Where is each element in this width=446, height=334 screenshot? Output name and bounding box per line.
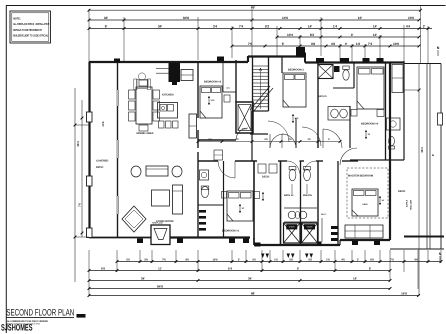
window marker top wall 5 bbox=[363, 58, 370, 63]
svg-text:7'4: 7'4 bbox=[368, 42, 373, 46]
bath4 vanity bbox=[387, 118, 401, 130]
ext line x232 bbox=[231, 26, 233, 58]
interior dim line in hall bbox=[198, 141, 340, 143]
tile shower 1 bbox=[284, 223, 301, 243]
wall x198 lower bath bbox=[197, 152, 199, 237]
bedroom1 nightstand bbox=[222, 192, 227, 199]
ext line x404 bbox=[403, 25, 405, 62]
ext line x352 bbox=[351, 44, 353, 62]
svg-text:4'6: 4'6 bbox=[341, 259, 345, 262]
svg-text:8': 8' bbox=[369, 267, 372, 271]
ext line x252 bbox=[251, 9, 253, 56]
bottom dim row B bbox=[89, 270, 390, 272]
svg-text:N: N bbox=[437, 46, 440, 50]
svg-text:36'4: 36'4 bbox=[420, 147, 424, 153]
svg-text:11': 11' bbox=[158, 267, 162, 271]
living round chair left bbox=[131, 166, 141, 177]
top dimension line A (86') bbox=[89, 9, 421, 11]
svg-text:PATIO: PATIO bbox=[96, 166, 103, 169]
bot ext x390 bbox=[389, 250, 391, 281]
bath vanity counter bbox=[284, 207, 317, 209]
svg-text:86': 86' bbox=[251, 291, 255, 295]
svg-text:7'6: 7'6 bbox=[162, 259, 166, 262]
svg-text:34': 34' bbox=[141, 276, 145, 280]
patio left wall bbox=[88, 62, 90, 237]
bath5 right wall x354 bbox=[353, 63, 355, 89]
bath4 outer wall x404 bbox=[403, 61, 405, 160]
svg-text:7'4: 7'4 bbox=[239, 24, 244, 28]
bath5 wall x350 bbox=[349, 106, 351, 148]
kitchen stools bbox=[159, 121, 165, 128]
bath sink oval bbox=[295, 212, 300, 219]
svg-text:4'6: 4'6 bbox=[414, 259, 418, 262]
svg-text:3'6: 3'6 bbox=[126, 259, 130, 262]
left dim short h-line bbox=[75, 124, 89, 126]
elevator shaft outer bbox=[236, 102, 253, 133]
bath5 nook bottom wall bbox=[333, 87, 354, 89]
svg-text:LIN.: LIN. bbox=[227, 87, 231, 90]
right dim h-tick bbox=[404, 89, 419, 91]
window marker top wall 6 bbox=[377, 58, 384, 63]
bottom wall right section bbox=[339, 240, 341, 245]
master dim arrow bbox=[379, 196, 381, 205]
ext line x277 bbox=[276, 26, 278, 56]
svg-text:BEDROOM #1: BEDROOM #1 bbox=[222, 230, 240, 233]
svg-text:DECK: DECK bbox=[398, 190, 405, 193]
svg-text:84'8: 84'8 bbox=[157, 284, 163, 288]
bottom wall middle section bbox=[253, 238, 255, 246]
hall wall y134 bbox=[250, 133, 268, 135]
bedroom2 bed bbox=[200, 86, 222, 118]
bedroom2 bottom wall bbox=[198, 139, 236, 141]
bedroom3 wall x282 bbox=[281, 57, 283, 74]
bot ext x89 bbox=[88, 250, 90, 296]
bot ext x198 bbox=[197, 250, 199, 272]
bot ext x441 bbox=[440, 250, 442, 263]
svg-text:8'2: 8'2 bbox=[310, 33, 315, 37]
svg-text:11'6: 11'6 bbox=[211, 99, 216, 102]
powder bath wall y205 bbox=[198, 204, 224, 206]
powder bath toilet bbox=[201, 186, 209, 197]
window marker bottom wall 5 bbox=[255, 243, 261, 247]
bedroom1 door arc bbox=[218, 161, 235, 178]
dim arrow pair 2 bbox=[287, 254, 291, 259]
master door arc bbox=[340, 148, 357, 165]
svg-text:HOT TUB: HOT TUB bbox=[409, 200, 412, 210]
svg-text:MASTER BEDROOM: MASTER BEDROOM bbox=[348, 175, 373, 178]
bath sink bowl 2 bbox=[299, 211, 307, 219]
note box outer frame bbox=[10, 11, 51, 43]
bedroom4 dim arrow bbox=[365, 130, 367, 139]
bottom dim row C bbox=[89, 280, 390, 282]
kitchen island bbox=[158, 103, 178, 119]
closet wall bedroom2 bbox=[222, 62, 224, 92]
svg-text:KING: KING bbox=[363, 203, 368, 206]
svg-text:6'8: 6'8 bbox=[101, 267, 105, 271]
svg-text:W.I.C.: W.I.C. bbox=[321, 213, 327, 216]
svg-text:1'6: 1'6 bbox=[356, 42, 361, 46]
laundry dash 3 bbox=[199, 222, 206, 225]
bot ext x404 bbox=[403, 250, 405, 272]
bot ext x335 bbox=[334, 250, 336, 272]
corridor south wall y161 segments bbox=[198, 160, 218, 162]
svg-text:34': 34' bbox=[248, 276, 252, 280]
svg-text:7'6: 7'6 bbox=[78, 203, 82, 207]
bath2 toilet bbox=[289, 169, 296, 181]
title underline bbox=[6, 317, 74, 319]
left vert dim line 1 bbox=[74, 88, 76, 282]
elevator shaft inner bbox=[238, 105, 251, 131]
svg-text:4'6: 4'6 bbox=[307, 138, 311, 141]
ext line x380 bbox=[379, 35, 381, 62]
svg-text:BEDROOM 3: BEDROOM 3 bbox=[288, 69, 304, 72]
top dimension line E bbox=[232, 45, 419, 47]
svg-text:4'6: 4'6 bbox=[185, 259, 189, 262]
svg-text:DECK: DECK bbox=[262, 176, 269, 179]
window marker top wall 3 bbox=[296, 53, 306, 58]
svg-text:7'6: 7'6 bbox=[390, 259, 394, 262]
bedroom3 wall x318 bbox=[317, 63, 319, 149]
svg-text:M.BATH: M.BATH bbox=[303, 194, 312, 197]
svg-text:86': 86' bbox=[251, 6, 256, 10]
svg-text:6'8: 6'8 bbox=[264, 138, 268, 141]
deck inner rail double line bbox=[426, 64, 428, 249]
ext line x365 bbox=[364, 44, 366, 62]
bedroom1 bed bbox=[227, 191, 253, 221]
bath5 vanity counter bbox=[328, 107, 350, 121]
bedroom2 dim arrow bbox=[208, 96, 210, 105]
title scale blob bbox=[77, 314, 86, 318]
window marker blob top bbox=[296, 47, 305, 53]
window marker bottom wall 3 bbox=[229, 239, 235, 244]
ext line x198 bbox=[197, 17, 199, 60]
dim arrow pair 1 bbox=[261, 254, 265, 259]
svg-text:14': 14' bbox=[353, 276, 357, 280]
left vert dim line 2 bbox=[81, 100, 83, 237]
svg-text:3': 3' bbox=[357, 259, 359, 262]
powder bath sink bbox=[200, 170, 209, 180]
closet dash 3 bbox=[331, 238, 338, 241]
right wall of master bedroom bbox=[389, 63, 391, 241]
svg-text:DETAILS TO BE PROVIDED BY: DETAILS TO BE PROVIDED BY bbox=[13, 28, 42, 32]
svg-text:10'6: 10'6 bbox=[212, 259, 218, 262]
bath4 toilet bbox=[389, 136, 395, 145]
svg-text:34': 34' bbox=[104, 16, 109, 20]
bot ext x246 bbox=[245, 250, 247, 263]
bot ext x321 bbox=[320, 250, 322, 263]
svg-text:12': 12' bbox=[242, 207, 245, 210]
bottom dim row D bbox=[89, 288, 390, 290]
bot ext x283 bbox=[282, 250, 284, 263]
ext line x300 bbox=[299, 35, 301, 52]
dining chairs bbox=[129, 90, 136, 99]
deck rail marker bbox=[438, 113, 443, 125]
svg-text:4'4: 4'4 bbox=[406, 24, 411, 28]
master tray ceiling dashed bbox=[347, 168, 388, 218]
svg-text:2': 2' bbox=[423, 24, 426, 28]
chimney base mark bbox=[172, 82, 177, 85]
svg-text:14': 14' bbox=[373, 33, 378, 37]
hall door arc 1 bbox=[270, 134, 284, 148]
deck dim arrow bbox=[262, 192, 264, 201]
closet dash 2 bbox=[331, 232, 338, 235]
note box inner frame bbox=[12, 13, 49, 42]
tile shower 2 bbox=[302, 223, 318, 243]
svg-text:BATH 5: BATH 5 bbox=[318, 95, 327, 98]
patio column marker 3 bbox=[87, 228, 93, 238]
svg-text:3'6: 3'6 bbox=[252, 259, 256, 262]
bedroom3 door arc bbox=[282, 134, 296, 148]
mbath door arc bbox=[304, 161, 316, 173]
top dimension line D bbox=[277, 36, 419, 38]
bath4 wall y160 bbox=[350, 159, 385, 161]
window marker bottom wall 8 bbox=[374, 241, 380, 245]
hall door arc big bbox=[268, 121, 289, 142]
svg-text:24'8: 24'8 bbox=[102, 121, 105, 127]
house left wall with windows bbox=[117, 62, 119, 90]
window marker bottom wall 4 bbox=[243, 239, 249, 244]
svg-text:ALL FIREPLACE SPECS + INSTALLA: ALL FIREPLACE SPECS + INSTALLATION bbox=[13, 22, 49, 26]
deck planters bbox=[258, 164, 266, 173]
svg-text:13': 13' bbox=[368, 133, 371, 136]
living rug diamond bbox=[122, 206, 146, 232]
wall x198 dining-bedroom2 bbox=[197, 62, 199, 118]
chase box with X bbox=[318, 65, 333, 79]
bath5 sink 1 bbox=[331, 109, 339, 118]
bot ext x140 bbox=[139, 250, 141, 263]
bedroom4 wall x385 bbox=[385, 63, 387, 161]
dimension arrows in bath bbox=[291, 184, 293, 194]
kitchen fridge bbox=[181, 70, 193, 81]
svg-text:5'4: 5'4 bbox=[228, 267, 232, 271]
bot ext x365 bbox=[364, 250, 366, 263]
svg-text:DINING AREA: DINING AREA bbox=[137, 132, 154, 135]
living chaise bbox=[173, 185, 183, 214]
bedroom4 nightstand left bbox=[351, 110, 357, 117]
svg-text:3'8: 3'8 bbox=[144, 259, 148, 262]
dark marker right of chase bbox=[334, 66, 340, 72]
bottom dim row A bbox=[117, 261, 441, 263]
svg-text:14': 14' bbox=[308, 24, 313, 28]
fireplace firebox bbox=[151, 225, 170, 245]
svg-text:1'6: 1'6 bbox=[274, 259, 278, 262]
living round chair right bbox=[172, 166, 182, 177]
svg-text:8': 8' bbox=[431, 154, 435, 157]
laundry dash 2 bbox=[199, 216, 206, 219]
svg-text:BUILDER/CLIENT TO CODE OFFICIA: BUILDER/CLIENT TO CODE OFFICIAL bbox=[13, 33, 48, 37]
dim arrow pair 3 bbox=[305, 254, 309, 259]
bottom wall left section bbox=[89, 237, 151, 239]
deck right rail bbox=[440, 64, 442, 250]
deck top edge bbox=[404, 63, 441, 65]
svg-text:FIREPLACE: FIREPLACE bbox=[152, 222, 163, 225]
master bed bbox=[352, 189, 378, 216]
deck bottom edge bbox=[390, 248, 444, 250]
bath sink bowl 1 bbox=[288, 211, 296, 219]
bedroom1 right nightstand bbox=[254, 192, 260, 199]
patio column marker 1 bbox=[87, 112, 93, 122]
svg-text:BEDROOM #4: BEDROOM #4 bbox=[361, 123, 379, 126]
svg-text:5': 5' bbox=[328, 138, 330, 141]
bot ext x428 bbox=[427, 250, 429, 263]
staircase with treads bbox=[252, 57, 254, 112]
bot ext x380 bbox=[379, 250, 381, 263]
closet dash 1 bbox=[331, 226, 338, 229]
svg-text:9'2: 9'2 bbox=[265, 24, 270, 28]
svg-text:14'6: 14'6 bbox=[282, 16, 288, 20]
stair bottom wall bbox=[253, 110, 269, 112]
svg-text:8': 8' bbox=[105, 24, 108, 28]
ext line x428 bbox=[427, 26, 429, 64]
wall x236 bedroom2 right bbox=[235, 60, 237, 102]
window marker top wall 4 bbox=[316, 58, 324, 63]
top wall right section bbox=[305, 61, 404, 63]
top wall step at x305 bbox=[304, 57, 306, 63]
svg-text:NOTE:: NOTE: bbox=[13, 16, 21, 20]
ext line x89 bbox=[88, 9, 90, 62]
top dimension line B bbox=[89, 19, 419, 21]
bath2 door arc bbox=[287, 161, 300, 174]
svg-text:10'6: 10'6 bbox=[393, 42, 399, 46]
svg-text:36'4: 36'4 bbox=[76, 141, 80, 147]
svg-text:3'8: 3'8 bbox=[308, 259, 312, 262]
svg-text:6'8: 6'8 bbox=[370, 259, 374, 262]
window marker bottom wall 6 bbox=[317, 242, 322, 246]
bot ext x270 bbox=[269, 250, 271, 263]
svg-text:KITCHEN: KITCHEN bbox=[162, 94, 174, 97]
bedroom4 wardrobe bbox=[392, 65, 403, 93]
svg-text:BATH #2: BATH #2 bbox=[284, 194, 294, 197]
deck bottom wall right bbox=[404, 236, 444, 238]
wall x223 bath right bbox=[223, 161, 225, 237]
bot ext x352 bbox=[351, 250, 353, 263]
kitchen pantry cabinet bbox=[189, 114, 197, 138]
svg-text:SECOND FLOOR PLAN: SECOND FLOOR PLAN bbox=[6, 307, 74, 317]
bedroom3 bed bbox=[283, 73, 306, 107]
fireplace chimney dark block bbox=[169, 63, 181, 82]
window marker top wall 4b bbox=[340, 58, 349, 63]
bot ext x262 bbox=[261, 250, 263, 272]
kitchen counter lines bbox=[156, 68, 169, 70]
svg-text:5'0x8'0: 5'0x8'0 bbox=[405, 200, 408, 208]
svg-text:1'6: 1'6 bbox=[326, 259, 330, 262]
window marker top wall 1 bbox=[114, 59, 120, 64]
wall x254 vertical bbox=[253, 161, 255, 245]
svg-text:14': 14' bbox=[373, 24, 378, 28]
page left border line bbox=[5, 6, 7, 334]
bath wall x318 bbox=[317, 161, 319, 245]
window marker top wall 2 bbox=[217, 57, 224, 62]
living sofa bbox=[146, 166, 168, 176]
bot ext x152 bbox=[151, 250, 153, 263]
bedroom2 door arc bbox=[236, 128, 248, 140]
ext line x321 bbox=[320, 17, 322, 56]
master closet rod line bbox=[321, 218, 323, 242]
bedroom2 nightstand bbox=[224, 95, 230, 102]
bot ext x117 bbox=[116, 250, 118, 272]
top dimension line C bbox=[89, 28, 432, 30]
top wall left section bbox=[89, 61, 248, 63]
svg-text:14': 14' bbox=[382, 199, 385, 202]
bot ext x232 bbox=[231, 250, 233, 263]
master bench dresser bbox=[345, 225, 383, 238]
svg-text:3'8: 3'8 bbox=[311, 42, 316, 46]
window marker bottom wall 1 bbox=[137, 239, 143, 244]
right vert dim ext bbox=[418, 64, 420, 296]
svg-text:5': 5' bbox=[282, 42, 285, 46]
armchair by fireplace bbox=[138, 73, 145, 80]
bottom dim row E bbox=[89, 295, 419, 297]
svg-text:N: N bbox=[439, 252, 442, 256]
bot ext x418 bbox=[417, 250, 419, 289]
wall x280 vertical bbox=[280, 161, 282, 245]
svg-text:11'6: 11'6 bbox=[295, 117, 300, 120]
ext line x124 bbox=[123, 17, 125, 62]
elevator X cross bbox=[238, 105, 251, 131]
svg-text:10'4: 10'4 bbox=[287, 33, 293, 37]
bedroom4 nightstand right bbox=[377, 110, 384, 117]
laundry dash 4 bbox=[199, 228, 206, 231]
bath4 bottom wall right bbox=[385, 159, 404, 161]
svg-text:BEDROOM #2: BEDROOM #2 bbox=[204, 81, 222, 84]
svg-text:3'4: 3'4 bbox=[213, 24, 218, 28]
bedroom4 door arc bbox=[323, 129, 342, 148]
dining table bbox=[136, 87, 152, 124]
svg-text:SJSHOMES: SJSHOMES bbox=[1, 323, 33, 333]
mbath toilet bbox=[304, 169, 311, 181]
svg-text:9': 9' bbox=[297, 267, 300, 271]
laundry dash 1 bbox=[199, 210, 206, 213]
patio column marker 2 bbox=[87, 176, 93, 186]
top wall step at x248 bbox=[247, 56, 249, 62]
svg-text:COVERED: COVERED bbox=[96, 160, 109, 163]
svg-text:SHWR: SHWR bbox=[289, 226, 295, 229]
bath wall x300 bbox=[300, 161, 302, 245]
wall x252 upper bbox=[251, 111, 253, 161]
svg-text:7'6: 7'6 bbox=[248, 42, 253, 46]
bath5 toilet bbox=[343, 70, 349, 80]
top wall middle section bbox=[248, 55, 305, 57]
page top border line bbox=[6, 5, 446, 7]
svg-text:10'6: 10'6 bbox=[408, 16, 414, 20]
hall wall x296 bbox=[295, 118, 297, 148]
window marker bottom wall 2 bbox=[177, 239, 183, 244]
svg-text:2': 2' bbox=[238, 259, 240, 262]
svg-text:14'6: 14'6 bbox=[401, 291, 407, 295]
svg-text:3': 3' bbox=[351, 33, 354, 37]
bedroom3 dim arrow bbox=[292, 114, 294, 123]
ext line x340 bbox=[339, 44, 341, 62]
bot ext x300 bbox=[299, 250, 301, 263]
svg-text:10': 10' bbox=[358, 16, 363, 20]
powder bath linen bbox=[214, 150, 223, 160]
svg-text:4': 4' bbox=[345, 42, 348, 46]
bath5 sink 2 bbox=[340, 109, 348, 118]
window marker bottom wall 7 bbox=[352, 241, 358, 245]
svg-text:3'8: 3'8 bbox=[289, 259, 293, 262]
svg-text:84'8: 84'8 bbox=[183, 16, 189, 20]
master closet wall x338 bbox=[337, 161, 339, 245]
bedroom4 bed bbox=[357, 67, 384, 109]
svg-text:4'6: 4'6 bbox=[331, 42, 336, 46]
hall door arc right bbox=[302, 127, 321, 146]
svg-text:34': 34' bbox=[158, 24, 163, 28]
svg-text:1'4: 1'4 bbox=[333, 24, 338, 28]
ext line x419 bbox=[420, 6, 422, 64]
bedroom1 dim arrow bbox=[239, 204, 241, 213]
living coffee table bbox=[152, 190, 170, 206]
svg-text:SHWR: SHWR bbox=[307, 226, 313, 229]
